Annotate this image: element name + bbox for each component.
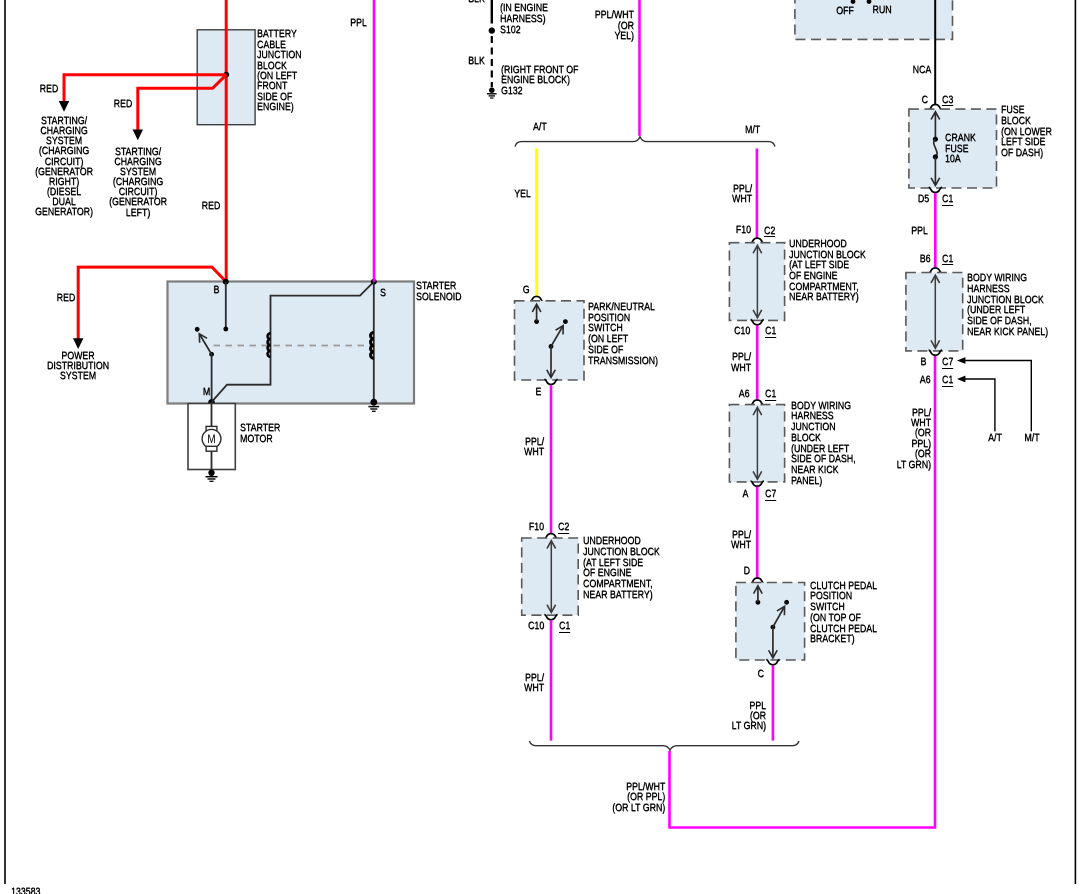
svg-text:M: M [207, 433, 215, 446]
label A/T [533, 122, 547, 132]
underhood junction block left [522, 538, 579, 615]
wire YEL A/T branch [535, 149, 538, 297]
starter solenoid box [168, 282, 415, 404]
arrow to starting/charging system right [59, 101, 69, 112]
label PPL/WHT at2 [524, 673, 544, 694]
label PPL/WHT mt1 [732, 184, 752, 205]
arrow to starting/charging system left [133, 130, 143, 141]
label starter motor [240, 423, 280, 444]
label RED 2 [113, 99, 132, 109]
wire B contact lead [225, 282, 227, 329]
label RED 3 [201, 201, 220, 211]
pin C clutch [757, 669, 763, 679]
label RUN [822, 5, 942, 15]
ground starter motor [206, 470, 218, 482]
label OFF [785, 6, 905, 16]
label YEL [514, 189, 531, 199]
pin C10 right [734, 326, 750, 336]
terminal lead D [756, 600, 761, 605]
pin C10 left [528, 621, 544, 631]
pin A6 b [920, 375, 931, 385]
label S102 [500, 25, 521, 35]
pin C1 left [559, 621, 570, 633]
label M/T ref [972, 433, 1087, 443]
label clutch pedal position switch [810, 581, 877, 645]
pin C1 b6 [942, 254, 953, 266]
connector C1 A6 body junction [751, 400, 764, 405]
wire pull-in winding loop [212, 282, 374, 402]
pin B [921, 357, 927, 367]
pin B6 [920, 254, 931, 264]
wire BLK engine harness [491, 0, 493, 24]
body wiring harness junction block right [729, 405, 784, 482]
label A/T ref [935, 433, 1055, 443]
clutch switch contacts [784, 600, 789, 605]
label BLK 1 [468, 0, 485, 4]
value CRANK FUSE 10A [945, 133, 976, 165]
pin M solenoid [203, 387, 210, 397]
wire PPL D5 to B6 [934, 193, 937, 268]
pin S solenoid [380, 288, 386, 298]
arrow to power distribution system [73, 338, 83, 349]
pin A [743, 489, 749, 499]
label PPL/WHT mt2 [731, 352, 751, 373]
ignition switch contact RUN [867, 0, 872, 4]
pin F10 left [529, 522, 544, 532]
label starting/charging system left [78, 147, 198, 218]
terminal lead G [534, 319, 539, 324]
wire RED battery feed vertical [225, 0, 228, 282]
pin C7 right [765, 489, 776, 501]
label starter solenoid [416, 281, 461, 302]
pin D [744, 566, 750, 576]
label NCA [913, 65, 932, 75]
ignition switch contact OFF [851, 0, 856, 4]
doc number [11, 887, 40, 894]
label M/T [745, 125, 760, 135]
pin C1 a6b [942, 375, 953, 387]
pin C3 [942, 95, 953, 107]
label underhood junction block left [583, 536, 660, 600]
wire PPL/WHT C10 to brace [550, 620, 553, 741]
wire BLK to ground dashed [491, 36, 493, 87]
wire PPL/WHT A to D [756, 487, 759, 578]
node S terminal [371, 279, 377, 285]
label starting/charging system right [4, 116, 124, 218]
pin C2 right [764, 226, 775, 238]
body wiring harness junction block fuse chain [906, 273, 963, 351]
wire NCA ignition to fuse block [934, 0, 936, 104]
underhood junction block right [729, 243, 784, 321]
connector C7 B [929, 350, 942, 355]
label fuse block [1001, 105, 1052, 159]
wire M to motor [211, 404, 213, 427]
node B terminal [223, 279, 229, 285]
wire PPL/WHT (OR YEL) [638, 0, 641, 136]
pin C1 d5 [942, 194, 953, 206]
wire PPL (OR LT GRN) C to brace [772, 665, 775, 740]
wire RED to generator left [138, 75, 227, 131]
label underhood junction block right [789, 239, 866, 303]
label G [523, 285, 530, 295]
connector G park/neutral switch [530, 296, 543, 301]
label E [536, 387, 542, 397]
connector C2 F10 underhood right [751, 238, 764, 243]
wire RED to generator right [64, 75, 226, 102]
pin C1 a6 [765, 389, 776, 401]
label PPL/WHT at1 [524, 437, 544, 458]
label PPL (OR LT GRN) [731, 701, 765, 732]
brace split A/T M/T [515, 137, 775, 147]
wire PPL M/T branch [756, 149, 759, 239]
label PPL top [350, 18, 367, 28]
ground solenoid case [368, 399, 379, 412]
pin D5 [917, 194, 928, 204]
label PPL fuse out [911, 226, 928, 236]
fuse CRANK 10A [934, 113, 936, 140]
border frame right [1074, 0, 1076, 884]
dashed armature link [214, 345, 372, 347]
connector C3 C [929, 105, 942, 110]
label PPL/WHT (OR PPL)(OR LT GRN) right [896, 408, 930, 470]
park/neutral position switch box [515, 301, 585, 380]
border frame left [4, 0, 6, 884]
connector E [544, 379, 557, 384]
splice S102 [489, 27, 495, 33]
label PPL/WHT (OR YEL) [594, 10, 633, 41]
label battery cable junction block [257, 29, 301, 112]
label body wiring harness junction block right [791, 401, 856, 487]
label PPL/WHT mt3 [731, 530, 751, 551]
pin C fuse [922, 95, 928, 105]
pin F10 right [735, 225, 750, 235]
pin C2 left [558, 522, 569, 534]
label right front of engine block [501, 65, 578, 86]
battery cable junction block [197, 30, 255, 125]
brace merge [529, 741, 799, 750]
reference arrow A/T to C1 [964, 379, 995, 431]
starter motor box [188, 404, 235, 470]
reference arrow M/T to C7 [964, 361, 1031, 432]
coil pull-in winding [268, 333, 271, 357]
connector C7 A [751, 481, 764, 486]
label RED 4 [57, 293, 76, 303]
node M terminal [208, 399, 215, 406]
wire hold-in winding to ground [373, 282, 375, 402]
wire PPL/WHT E to F10 [550, 385, 553, 534]
connector C1 D5 [929, 187, 942, 192]
coil hold-in winding [371, 332, 374, 358]
pin C1 right [765, 326, 776, 338]
wire RED to power distribution [78, 267, 226, 339]
clutch pedal position switch box [736, 583, 805, 661]
connector C2 F10 underhood [544, 534, 557, 539]
ground G132 [487, 87, 497, 98]
solenoid switch arm [209, 352, 214, 357]
label BLK 2 [468, 56, 485, 66]
label in engine harness [500, 3, 548, 24]
wire motor to ground [211, 451, 213, 473]
switch output lead C [772, 627, 774, 657]
wire PPL/WHT to A6 [756, 325, 759, 400]
label body wiring harness junction block fuse chain [967, 273, 1048, 337]
node battery junction splice [223, 72, 229, 78]
park/neutral switch contacts [563, 319, 568, 324]
motor M1 starter motor [206, 426, 217, 431]
wire PPL/WHT (OR PPL)(OR LT GRN) bottom run [670, 356, 936, 828]
switch output lead E [550, 346, 552, 376]
label PPL/WHT (OR PPL)(OR LT GRN) bottom [612, 782, 665, 813]
connector D clutch switch [751, 578, 764, 583]
pin C7 b [942, 357, 953, 369]
solenoid switch contact [195, 327, 200, 332]
pin B solenoid [214, 285, 220, 295]
connector C1 C10 [544, 614, 557, 619]
pin A6 right [739, 389, 750, 399]
label park/neutral position switch [588, 302, 658, 366]
connector C1 C10 right [751, 320, 764, 325]
label RED 1 [40, 84, 59, 94]
connector C1 B6 [929, 268, 942, 273]
label G132 [501, 86, 523, 96]
wire PPL ignition feed [373, 0, 376, 282]
ignition switch box [795, 0, 953, 39]
connector C [766, 660, 779, 665]
wire arm to M terminal [211, 354, 213, 402]
label power distribution system [18, 351, 138, 382]
fuse block box [909, 109, 997, 188]
